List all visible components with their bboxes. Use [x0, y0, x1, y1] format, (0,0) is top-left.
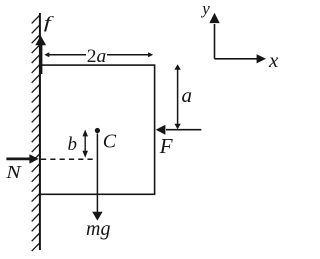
svg-text:C: C: [103, 131, 117, 153]
svg-text:x: x: [268, 48, 279, 72]
svg-text:a: a: [182, 83, 193, 107]
svg-text:mg: mg: [86, 218, 110, 240]
svg-text:y: y: [200, 0, 210, 18]
svg-text:2a: 2a: [87, 46, 107, 67]
svg-text:F: F: [159, 134, 173, 158]
svg-text:b: b: [68, 134, 78, 155]
svg-text:N: N: [5, 162, 22, 182]
